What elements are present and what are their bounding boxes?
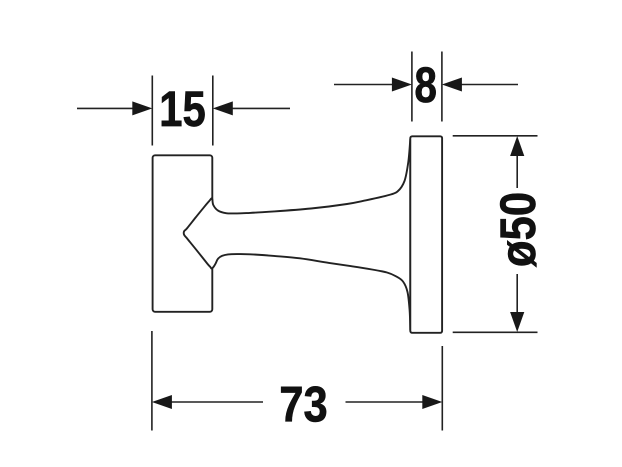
dimension d50: down arrowhead [510, 312, 524, 332]
dimension 8: right leader line [460, 84, 518, 86]
dimension 15: extension line right [212, 76, 214, 146]
dimension 73: label [281, 386, 326, 421]
dimension 73: right line segment [346, 401, 425, 403]
dimension 8: left arrowhead [392, 78, 412, 92]
left knob plate [153, 155, 213, 311]
dimension d50: lower line segment [516, 274, 518, 314]
dimension d50: top extension line [453, 135, 538, 137]
dimension d50: bottom extension line [453, 331, 538, 333]
dimension 8: right arrowhead [442, 78, 462, 92]
dimension 15: label [162, 92, 205, 127]
dimension 15: left leader line [77, 107, 134, 109]
hook body (chevron + neck + flare) [184, 139, 411, 330]
dimension 73: right arrowhead [422, 395, 442, 409]
dimension 15: extension line left [151, 76, 153, 146]
dimension 73: left line segment [170, 401, 263, 403]
dimension 15: right leader line [231, 107, 290, 109]
dimension 73: left arrowhead [152, 395, 172, 409]
dimension d50: label [500, 194, 536, 267]
dimension d50: upper line segment [516, 154, 518, 188]
dimension 73: extension line left [151, 331, 153, 431]
dimension 8: label [416, 67, 436, 102]
right wall plate [410, 136, 442, 332]
dimension 15: right arrowhead [213, 101, 233, 115]
dimension 8: extension line right [441, 52, 443, 122]
dimension 8: left leader line [334, 84, 393, 86]
dimension d50: up arrowhead [510, 136, 524, 156]
dimension 73: extension line right [441, 346, 443, 431]
dimension 8: extension line left [411, 52, 413, 122]
dimension 15: left arrowhead [132, 101, 152, 115]
